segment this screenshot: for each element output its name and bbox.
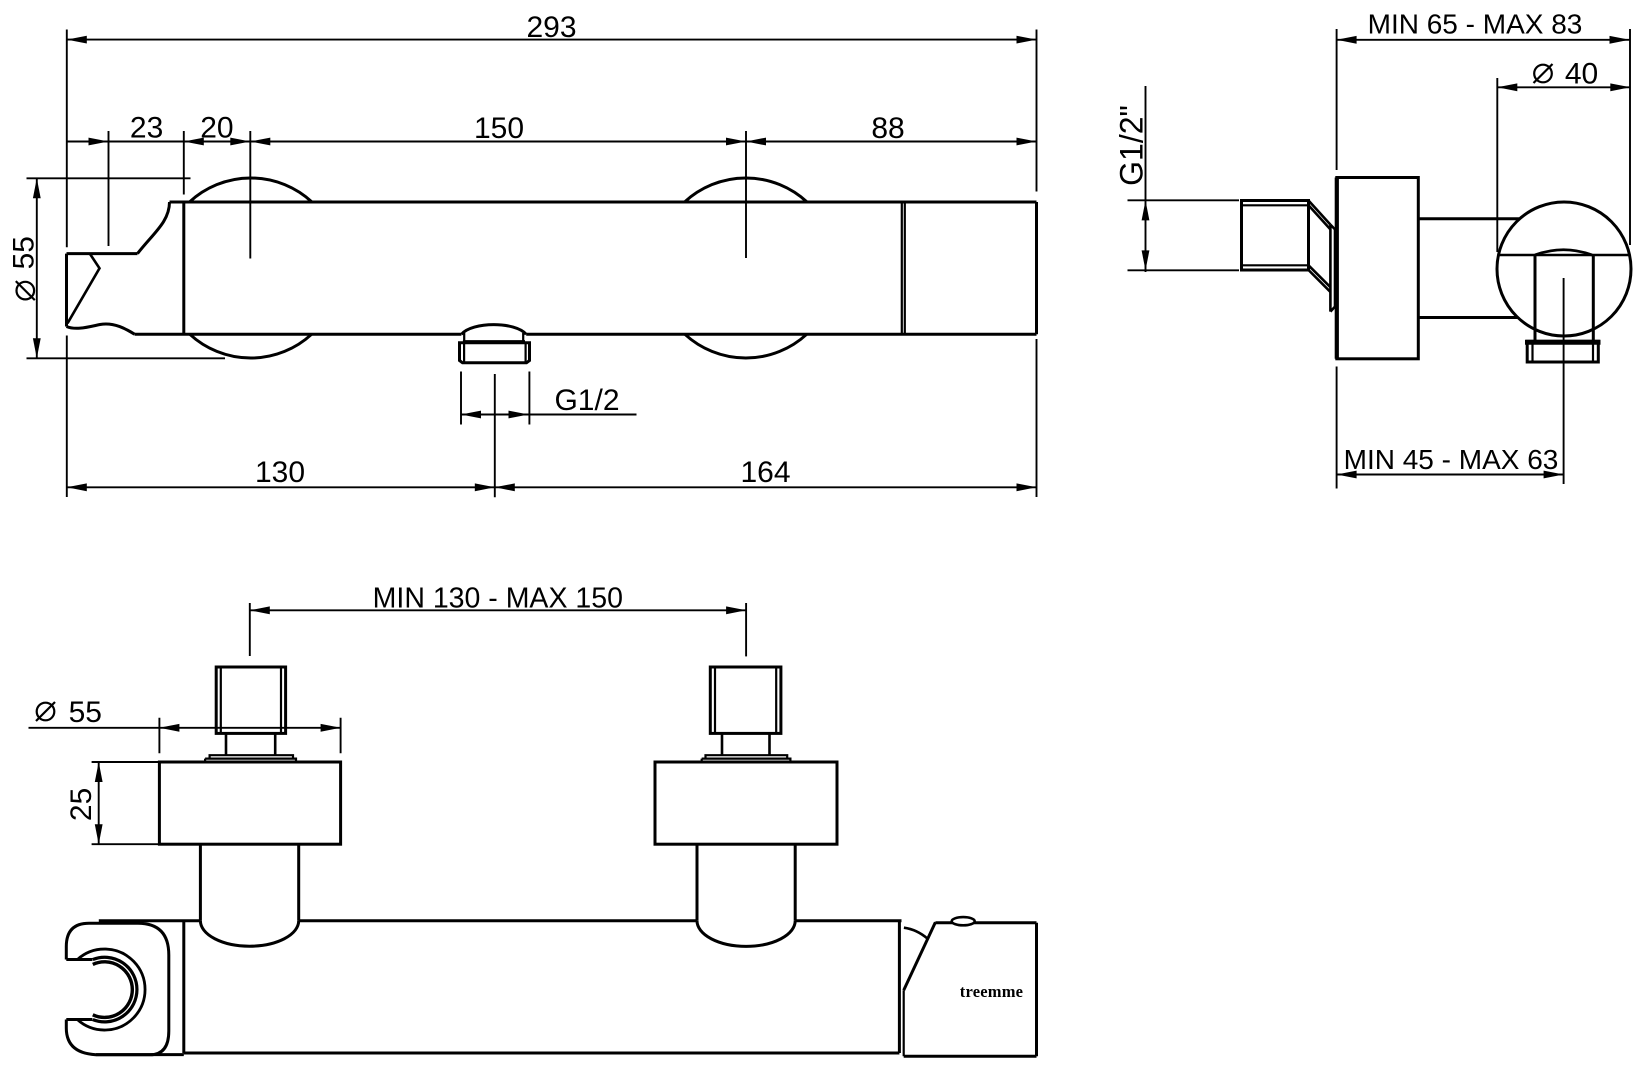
cup centerline bbox=[1563, 278, 1565, 484]
G1/2 aerator extension lines bbox=[461, 372, 529, 425]
extension line right end lower bbox=[1036, 339, 1038, 497]
faucet bar right end edge bbox=[1035, 202, 1038, 334]
valve 1 washer bbox=[205, 755, 296, 762]
valve 2 flange bbox=[655, 762, 837, 844]
svg-text:55: 55 bbox=[69, 696, 102, 729]
valve 2 washer bbox=[702, 755, 791, 762]
svg-text:MIN 45 - MAX 63: MIN 45 - MAX 63 bbox=[1344, 444, 1559, 475]
dia55 dimension (plan) bbox=[29, 727, 341, 729]
valve 2 centerline ext bbox=[745, 603, 747, 656]
dimension MIN 65 - MAX 83 bbox=[1337, 39, 1630, 41]
handset holder outline bbox=[66, 923, 169, 1055]
svg-text:25: 25 bbox=[65, 788, 98, 821]
holder slot lines bbox=[66, 960, 92, 1020]
extension line right end upper bbox=[1036, 30, 1038, 192]
end cap left edge bbox=[65, 254, 68, 327]
dia55 bottom extension bbox=[27, 357, 226, 359]
dia40 left extension bbox=[1496, 78, 1498, 252]
svg-text:G1/2: G1/2 bbox=[554, 384, 619, 417]
valve 1 square knob bbox=[216, 667, 285, 733]
svg-text:20: 20 bbox=[200, 112, 233, 145]
svg-text:G1/2": G1/2" bbox=[1114, 105, 1150, 186]
holder ring middle arc bbox=[93, 957, 137, 1022]
G1/2" rotated label bbox=[1114, 105, 1150, 186]
dia55 top extension bbox=[27, 177, 191, 179]
body joint double line bbox=[902, 202, 905, 334]
svg-text:293: 293 bbox=[526, 11, 576, 44]
cup dome bbox=[1535, 250, 1592, 255]
dimension 25 line bbox=[98, 762, 100, 844]
aerator dome bbox=[461, 325, 526, 335]
faucet bar bottom edge (interrupted by aerator dome) bbox=[135, 333, 1037, 336]
extension wall face upper bbox=[1336, 29, 1338, 170]
faucet body left edge bbox=[182, 202, 185, 334]
G1/2 nipple square bbox=[1242, 201, 1309, 271]
svg-text:130: 130 bbox=[255, 456, 305, 489]
dimension dia40 bbox=[1497, 86, 1630, 88]
small button ellipse bbox=[952, 917, 975, 925]
bar top edge segments bbox=[99, 921, 1037, 923]
joint line right piece bbox=[903, 990, 905, 1056]
handle circle 1 bottom arc bbox=[190, 334, 312, 358]
nipple bottom perspective edges bbox=[1309, 265, 1331, 292]
aerator dome side drops bbox=[464, 333, 523, 341]
connecting cylinder bbox=[1418, 219, 1519, 318]
holder ring inner arc bbox=[93, 962, 133, 1018]
handle circle 2 bottom arc bbox=[685, 334, 807, 358]
G1/2" extension lines bbox=[1128, 200, 1240, 270]
extension line x184 bbox=[183, 131, 185, 195]
holder ring outer arc bbox=[77, 949, 145, 1030]
dia55 rotated label bbox=[8, 236, 41, 300]
svg-text:23: 23 bbox=[130, 112, 163, 145]
label 25 rotated bbox=[65, 788, 98, 821]
handle circle 1 top arc bbox=[190, 178, 312, 202]
dimension 23 20 150 88 line bbox=[67, 141, 1037, 143]
lever fillet arc bbox=[904, 928, 928, 939]
nipple top perspective edges bbox=[1309, 201, 1331, 230]
valve 1 neck bbox=[200, 844, 298, 921]
svg-text:MIN 65 - MAX 83: MIN 65 - MAX 83 bbox=[1368, 9, 1583, 40]
aerator collar inner edges bbox=[464, 343, 525, 363]
valve 1 neck bottom arc bbox=[200, 921, 298, 946]
nipple thread relief lines bbox=[1242, 205, 1309, 265]
bar right end edge bbox=[1035, 923, 1038, 1057]
extension/centerline circle 1 bbox=[249, 131, 251, 259]
svg-text:MIN 130 - MAX 150: MIN 130 - MAX 150 bbox=[373, 583, 623, 615]
cove fillet joining end cap to bar bbox=[138, 202, 170, 254]
valve 2 neck bbox=[697, 844, 795, 921]
wall bracket block bbox=[1337, 178, 1419, 359]
dimension 25 extension lines bbox=[92, 762, 158, 844]
lever diagonal bbox=[904, 922, 936, 990]
handset cup sides bbox=[1535, 255, 1593, 341]
valve 1 centerline ext bbox=[249, 603, 251, 656]
svg-text:164: 164 bbox=[740, 456, 790, 489]
dia55 plan extension lines bbox=[159, 718, 340, 754]
tilted cover plate bbox=[1330, 225, 1335, 312]
valve 2 knob inner edges bbox=[715, 667, 776, 733]
extension line x108 bbox=[108, 131, 110, 246]
dia55 dimension line bbox=[36, 178, 38, 358]
handle circle 2 top arc bbox=[685, 178, 807, 202]
svg-text:55: 55 bbox=[8, 236, 41, 269]
extension plate right bbox=[1629, 29, 1631, 245]
valve 1 stem bbox=[226, 733, 275, 755]
dimension 130 164 line bbox=[67, 486, 1037, 488]
valve 2 stem bbox=[722, 733, 770, 755]
dimension MIN 45 - MAX 63 bbox=[1337, 474, 1564, 476]
svg-text:40: 40 bbox=[1565, 58, 1598, 91]
end cap top edge bbox=[67, 252, 138, 255]
joint line left piece bbox=[898, 921, 901, 1053]
G1/2 dimension + leader bbox=[461, 414, 637, 416]
extension wall face lower bbox=[1336, 367, 1338, 489]
svg-text:150: 150 bbox=[474, 112, 524, 145]
end cap wavy break line bbox=[67, 324, 135, 334]
wall bracket left face (thick) bbox=[1335, 178, 1339, 359]
nut chamfer lines bbox=[1533, 341, 1594, 362]
valve 1 flange bbox=[159, 762, 340, 844]
end cap notch slash bbox=[68, 254, 100, 324]
dimension 293 line bbox=[67, 39, 1037, 41]
valve 2 neck bottom arc bbox=[697, 921, 795, 947]
bar bottom edge bbox=[96, 1053, 1037, 1056]
G1/2" dimension line bbox=[1145, 86, 1147, 272]
aerator collar bbox=[460, 343, 530, 363]
dimension MIN 130 - MAX 150 bbox=[250, 609, 746, 611]
cup nut bbox=[1527, 341, 1598, 362]
aerator top band bbox=[463, 340, 525, 343]
valve 2 square knob bbox=[710, 667, 781, 733]
bar left end edge bbox=[182, 921, 185, 1053]
round wall plate dia40 bbox=[1497, 202, 1631, 336]
extension/centerline circle 2 bbox=[745, 131, 747, 258]
svg-text:treemme: treemme bbox=[960, 982, 1023, 1001]
aerator centerline bbox=[494, 374, 496, 497]
extension line left end bbox=[66, 30, 68, 498]
valve 1 knob inner edges bbox=[221, 667, 281, 733]
faucet bar top edge bbox=[170, 201, 1037, 204]
plate front chord bbox=[1499, 254, 1630, 257]
svg-text:88: 88 bbox=[871, 112, 904, 145]
